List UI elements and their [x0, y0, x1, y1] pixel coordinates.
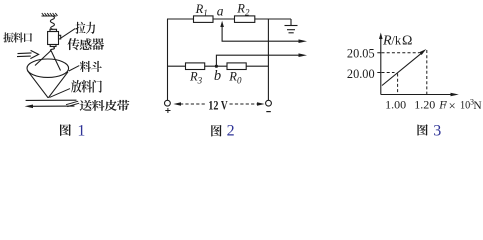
caption figure 3 — [417, 123, 441, 140]
ground symbol — [285, 19, 298, 33]
caption figure 1 — [60, 123, 85, 140]
resistor R1 — [194, 16, 214, 23]
graph x axis with arrow — [381, 93, 459, 97]
dashed line at 20.00 — [382, 72, 395, 74]
node b junction dot — [215, 65, 218, 68]
svg-text:a: a — [217, 4, 224, 19]
label: vibrating feed port (zhen-liao-kou) — [3, 32, 13, 42]
svg-text:1.20: 1.20 — [414, 97, 435, 111]
label: feed belt (song-liao-pi-dai) — [80, 100, 92, 111]
svg-text:3: 3 — [433, 123, 441, 138]
resistor R0 — [227, 63, 246, 70]
plus sign — [165, 108, 170, 113]
R-F characteristic line with arrow — [382, 49, 426, 86]
svg-text:12: 12 — [208, 97, 218, 112]
output wire from node b with right arrow — [216, 53, 307, 66]
dashed line at 20.05 — [382, 52, 420, 54]
tension sensor body — [48, 29, 61, 46]
fixed ceiling support — [42, 13, 58, 16]
conveyor belt top line — [26, 99, 77, 101]
y axis tick marks — [377, 53, 381, 73]
hopper cone — [28, 71, 68, 98]
spring — [50, 16, 54, 30]
pointer line to discharge door label — [50, 89, 71, 98]
svg-text:V: V — [221, 97, 228, 112]
terminal minus circle — [266, 100, 272, 106]
resistor R2 — [235, 16, 255, 23]
output wire from node a with up arrow and right arrow — [220, 21, 307, 43]
wire left vertical — [167, 19, 169, 100]
dashed vertical at 1.20 — [426, 50, 428, 94]
hook below sensor — [50, 47, 54, 52]
svg-text:1.00: 1.00 — [385, 97, 406, 111]
label: discharge door (fang-liao-men) — [71, 80, 81, 93]
svg-text:20.05: 20.05 — [347, 47, 375, 61]
label: sensor (chuan-gan-qi) — [67, 38, 79, 50]
pointer line to hopper label — [69, 66, 80, 71]
terminal plus circle — [165, 100, 171, 106]
pointer line to sensor label — [61, 29, 76, 39]
dashed vertical at 1.00 — [397, 74, 399, 95]
svg-text:R/kΩ: R/kΩ — [382, 34, 412, 49]
caption figure 2 — [211, 122, 234, 139]
12V annotation with arrows — [173, 97, 264, 112]
wire right vertical — [267, 19, 269, 100]
svg-text:b: b — [214, 68, 221, 84]
label: hopper (liao-dou) — [80, 61, 91, 72]
conveyor belt bottom line with left arrow — [25, 105, 75, 109]
wire top row — [167, 18, 291, 20]
feed chute double arrow — [17, 50, 39, 58]
wire middle row — [168, 65, 269, 67]
hopper rim ellipse — [27, 59, 69, 77]
resistor R3 — [186, 63, 205, 70]
hopper hanger lines — [35, 51, 61, 71]
minus sign — [266, 111, 271, 113]
graph y axis with arrow — [379, 33, 383, 95]
svg-text:2: 2 — [227, 122, 235, 138]
pointer double line to belt label — [66, 101, 79, 106]
label: tension (la-li) — [75, 22, 85, 34]
svg-text:F/×103N: F/×103N — [438, 97, 482, 113]
svg-text:1: 1 — [77, 123, 85, 139]
svg-text:20.00: 20.00 — [347, 67, 375, 81]
